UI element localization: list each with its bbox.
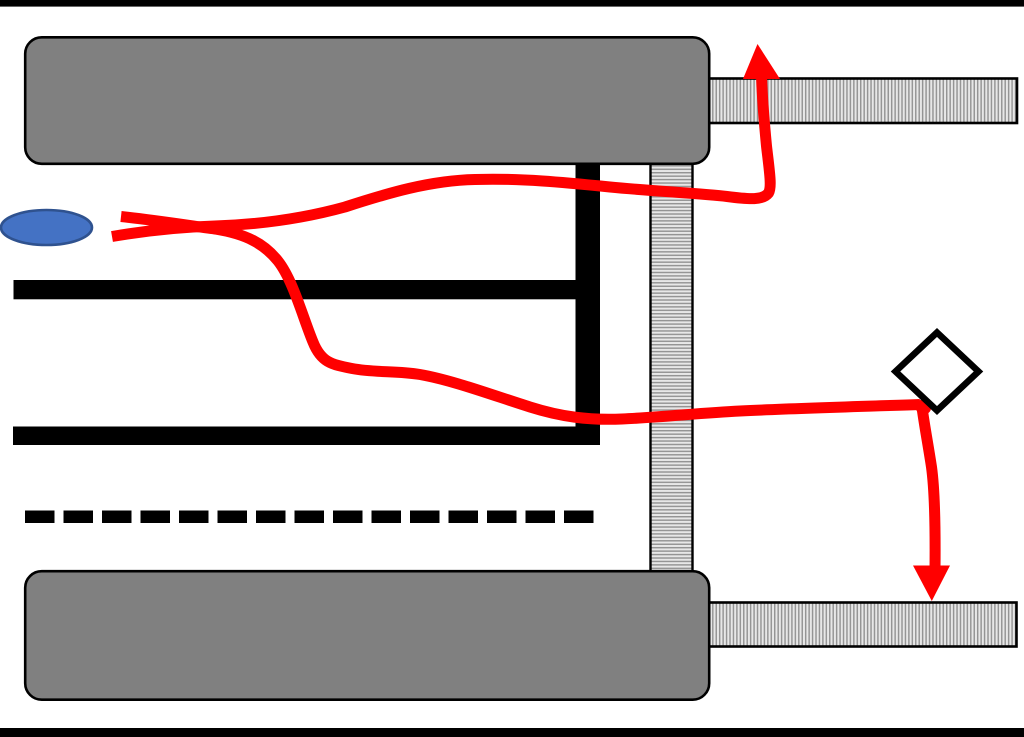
red curved arrow 1 (to top): [112, 74, 770, 237]
red arrowhead 3 (down): [913, 566, 950, 602]
red curved arrow 2 (left to diamond): [121, 217, 920, 420]
dashed black line: [25, 511, 594, 524]
black vertical line: [576, 163, 601, 445]
bottom hatched bar: [700, 603, 1017, 647]
top gray rounded bar: [25, 37, 709, 164]
blue ellipse: [1, 210, 92, 245]
vertical hatched bar: [651, 160, 693, 574]
red arrowhead 1 (up): [743, 44, 780, 79]
red junction dot at diamond: [916, 399, 932, 415]
diamond shape: [896, 333, 979, 411]
top hatched bar: [700, 79, 1017, 124]
bottom wall bar: [0, 728, 1024, 737]
red curved arrow 3 (diamond to bottom): [922, 407, 935, 570]
top wall bar: [0, 0, 1024, 7]
black horizontal line 2: [13, 427, 600, 446]
bottom gray rounded bar: [25, 571, 709, 700]
black horizontal line 1: [14, 280, 601, 299]
